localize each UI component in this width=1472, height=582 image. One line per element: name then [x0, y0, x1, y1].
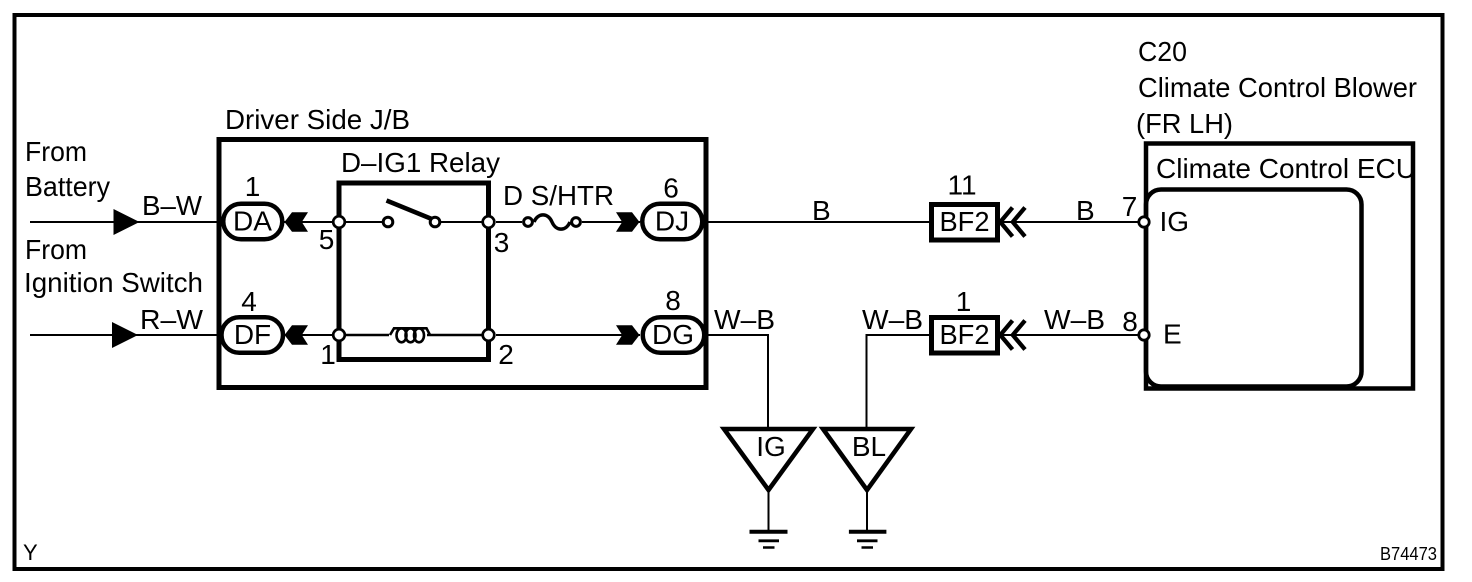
svg-text:DA: DA — [233, 206, 272, 237]
svg-text:D–IG1 Relay: D–IG1 Relay — [341, 147, 500, 178]
svg-text:3: 3 — [494, 227, 510, 258]
wire fuse to DJ — [582, 221, 640, 223]
svg-text:B: B — [812, 195, 831, 226]
svg-text:W–B: W–B — [714, 304, 775, 335]
wire DA to relay pin 5 — [284, 221, 339, 223]
svg-text:BF2: BF2 — [940, 319, 990, 350]
connector DA pin 1 — [223, 171, 282, 239]
relay switch contact circles — [383, 217, 393, 227]
svg-text:Battery: Battery — [25, 171, 110, 202]
svg-text:B74473: B74473 — [1380, 544, 1437, 564]
svg-text:R–W: R–W — [140, 304, 204, 335]
svg-text:(FR LH): (FR LH) — [1136, 108, 1233, 139]
ground stub BL — [866, 490, 868, 530]
connector BF2 pin 1 — [932, 286, 998, 353]
wire relay pin 3 to fuse — [496, 221, 522, 223]
svg-text:1: 1 — [245, 171, 261, 202]
chevrons BF2 lower — [1000, 321, 1025, 350]
connector BF2 pin 11 — [932, 170, 998, 241]
svg-text:DJ: DJ — [655, 206, 689, 237]
wire battery feed B-W — [30, 221, 221, 223]
svg-text:2: 2 — [498, 339, 514, 370]
svg-text:DG: DG — [652, 319, 694, 350]
svg-text:11: 11 — [947, 170, 976, 201]
connector DF pin 4 — [222, 286, 284, 353]
wire relay pin 2 to DG — [496, 334, 640, 336]
wire BF2 to ECU pin 7 label B — [1001, 221, 1141, 223]
ECU pin 7 IG — [1122, 191, 1189, 237]
arrow into DA — [285, 212, 309, 231]
svg-text:Y: Y — [23, 540, 38, 565]
relay D-IG1 Relay — [339, 147, 500, 360]
fuse D S/HTR — [503, 180, 614, 229]
svg-text:8: 8 — [1122, 306, 1138, 337]
svg-text:7: 7 — [1122, 191, 1138, 222]
wire BL corner to BF2 W-B — [867, 335, 930, 428]
label From Battery — [25, 136, 110, 202]
svg-text:B–W: B–W — [142, 190, 203, 221]
svg-text:Climate Control ECU: Climate Control ECU — [1156, 153, 1416, 184]
relay pin 2 node — [483, 329, 514, 370]
relay switch wire — [339, 221, 382, 223]
arrow into DJ — [616, 212, 640, 231]
svg-text:BL: BL — [852, 431, 886, 462]
svg-text:5: 5 — [319, 224, 335, 255]
svg-text:From: From — [25, 234, 87, 265]
wire DF to relay pin 1 — [284, 334, 339, 336]
svg-text:IG: IG — [756, 431, 786, 462]
wire BF2 to ECU pin 8 label W-B — [1001, 334, 1141, 336]
svg-text:W–B: W–B — [1044, 304, 1105, 335]
svg-text:8: 8 — [665, 285, 681, 316]
chevrons BF2 upper — [1000, 208, 1025, 237]
svg-text:DF: DF — [234, 319, 271, 350]
junction block Driver Side J/B — [219, 104, 706, 388]
svg-text:E: E — [1163, 319, 1182, 350]
svg-text:1: 1 — [956, 286, 972, 317]
arrow ignition feed — [112, 322, 138, 348]
svg-text:4: 4 — [241, 286, 257, 317]
ECU Climate Control ECU — [1146, 153, 1416, 387]
ground triangle IG — [724, 429, 813, 490]
label From Ignition Switch — [24, 234, 203, 298]
wire DJ to BF2 label B — [704, 221, 929, 223]
svg-text:1: 1 — [320, 339, 336, 370]
relay coil wire — [339, 334, 389, 337]
relay switch blade — [387, 201, 434, 220]
connector DG pin 8 — [643, 285, 705, 353]
svg-text:C20: C20 — [1138, 36, 1187, 67]
ECU pin 8 E — [1122, 306, 1181, 350]
svg-text:IG: IG — [1160, 206, 1190, 237]
relay coil — [390, 328, 430, 342]
svg-text:B: B — [1076, 195, 1095, 226]
svg-text:Climate Control Blower: Climate Control Blower — [1138, 72, 1417, 103]
wire ignition feed R-W — [30, 334, 220, 336]
svg-text:From: From — [25, 136, 87, 167]
arrow into DF — [285, 325, 309, 344]
arrow into DG — [616, 325, 640, 344]
relay pin 5 node — [319, 216, 345, 255]
svg-text:D S/HTR: D S/HTR — [503, 180, 614, 211]
connector DJ pin 6 — [642, 173, 702, 240]
connector C20 Climate Control Blower — [1136, 36, 1417, 389]
relay pin 1 node — [320, 329, 345, 370]
relay pin 3 node — [483, 216, 510, 258]
svg-text:W–B: W–B — [862, 304, 923, 335]
svg-text:Ignition Switch: Ignition Switch — [24, 267, 203, 298]
ground symbol IG — [750, 532, 788, 548]
svg-text:6: 6 — [663, 173, 679, 204]
arrow battery feed — [114, 209, 140, 235]
wire DG to ground corner W-B — [706, 335, 768, 428]
svg-text:BF2: BF2 — [940, 206, 990, 237]
ground triangle BL — [823, 429, 911, 490]
svg-text:Driver Side J/B: Driver Side J/B — [225, 104, 410, 135]
ground stub IG — [768, 490, 770, 530]
ground symbol BL — [849, 532, 887, 548]
